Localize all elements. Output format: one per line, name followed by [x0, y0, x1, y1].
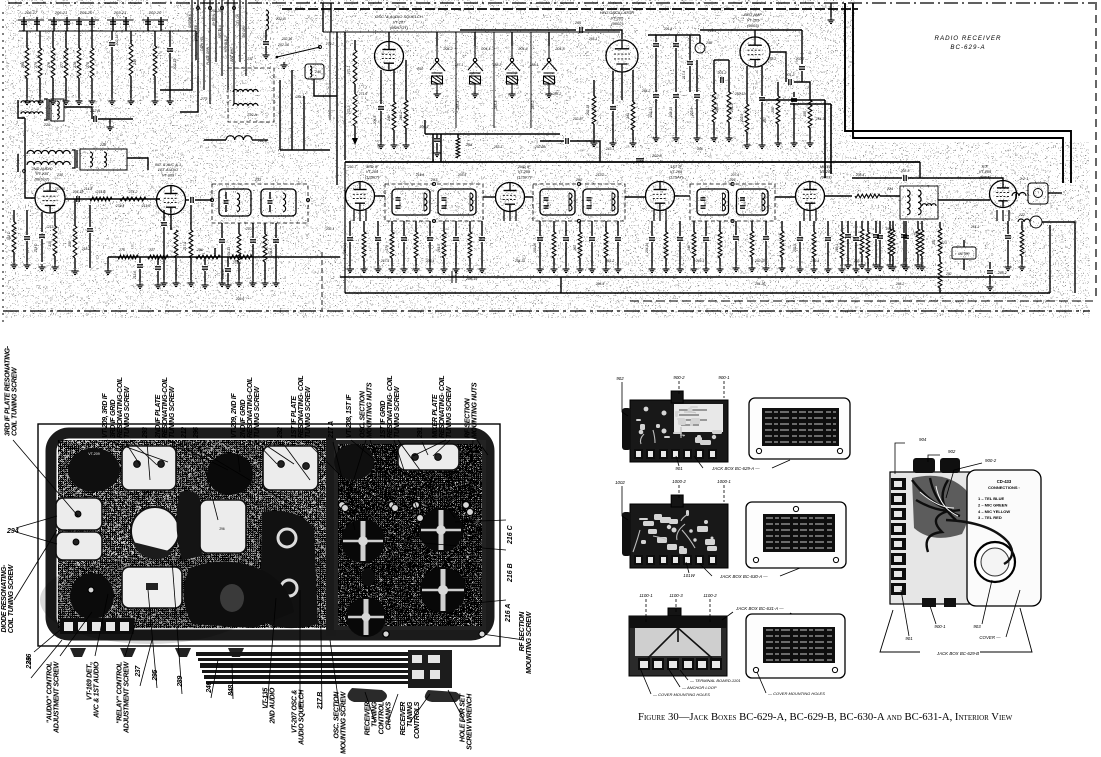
- svg-text:903: 903: [973, 624, 981, 629]
- photo shield 296: [200, 500, 246, 553]
- jack box 4 bracket: [880, 608, 1032, 652]
- resistor 251: [938, 228, 942, 256]
- photo rf section speckle: [338, 444, 482, 626]
- ground 204-6: [273, 280, 280, 287]
- transformer 292 dashed box: [533, 184, 625, 221]
- wire 261-3 gnd: [605, 258, 607, 266]
- wire 252 to bus: [939, 288, 941, 293]
- ground 204-7: [250, 280, 257, 287]
- wire transformer to cap 212-B: [64, 107, 92, 119]
- wire 255 gnd: [809, 128, 811, 140]
- callout line bottom: [232, 664, 233, 699]
- section divider dashed: [321, 252, 323, 310]
- ground 204-40: [903, 264, 910, 271]
- ground 256: [775, 140, 782, 147]
- ground 280: [24, 98, 31, 105]
- svg-text:900-1: 900-1: [718, 375, 730, 380]
- resistor 219: [263, 234, 267, 262]
- cover BC-630-A mounting hole right: [833, 557, 838, 562]
- ground 268-1: [413, 266, 420, 273]
- terminal 228 pin: [23, 170, 26, 173]
- wire 204-14 gnd: [89, 233, 91, 268]
- svg-text:312 D: 312 D: [7, 231, 11, 240]
- capacitor 202-2: [24, 237, 30, 239]
- callout line 1000-1: [723, 485, 725, 502]
- wire 219 top: [264, 223, 266, 234]
- capacitor 205-20b: [89, 22, 95, 24]
- wire 261-5 gnd: [443, 258, 445, 266]
- wire to lower row: [24, 118, 26, 131]
- callout line jackbox2 cover: [780, 568, 800, 576]
- wire 204-16 top: [227, 257, 229, 267]
- wire 259 top: [74, 199, 76, 226]
- wire 262-23 gnd: [665, 258, 667, 266]
- wire 204-9 gnd: [163, 227, 165, 280]
- svg-text:249-3: 249-3: [695, 259, 705, 263]
- ground 202-33: [873, 262, 880, 269]
- svg-text:VT 169: VT 169: [86, 567, 97, 571]
- resistor 246-2: [404, 100, 408, 128]
- wire 228 left: [17, 154, 19, 172]
- svg-text:264-2: 264-2: [641, 89, 651, 93]
- capacitor 202-16b: [263, 42, 269, 44]
- resistor 255: [808, 100, 812, 128]
- wire 259 gnd: [74, 258, 76, 268]
- wire drop to ground: [109, 119, 111, 124]
- svg-text:266-2: 266-2: [895, 282, 905, 286]
- resistor 268-5: [860, 229, 864, 254]
- ground 203-3: [825, 266, 832, 273]
- jack box 4 interior shadow: [912, 476, 969, 538]
- wire heavy relay drop a: [432, 134, 434, 162]
- svg-text:211-6: 211-6: [141, 204, 150, 208]
- tube VT-207: [375, 42, 404, 71]
- wire 204-8b gnd: [705, 242, 707, 266]
- svg-text:JACK BOX BC-629-A —: JACK BOX BC-629-A —: [711, 466, 760, 471]
- resistor 261-8: [916, 229, 920, 254]
- wire 202-14b gnd: [429, 242, 431, 266]
- transformer 236 sub2: [261, 189, 296, 216]
- wire bank bus left up: [424, 120, 426, 134]
- wire 204-2b top: [591, 221, 593, 236]
- wire 268-5 gnd: [861, 254, 863, 262]
- wire 206-8 gnd: [617, 242, 619, 266]
- svg-text:293: 293: [142, 427, 149, 439]
- svg-text:212: 212: [181, 427, 188, 439]
- capacitor 292b2: [587, 206, 592, 208]
- svg-text:JACK BOX BC-630-A —: JACK BOX BC-630-A —: [719, 574, 768, 579]
- wire 216-2 top: [675, 35, 677, 42]
- bundle terminal: [209, 7, 212, 10]
- terminal 292 bottom: [577, 219, 580, 222]
- photo screw mixer b: [435, 454, 442, 461]
- cover BC-629-B wire over grommet: [946, 520, 1012, 564]
- wire 204-8 out: [195, 199, 212, 201]
- coil 236 b: [283, 193, 286, 212]
- wire 206-5 top: [377, 221, 379, 236]
- svg-text:1100-3: 1100-3: [669, 593, 683, 598]
- ground avc left: [105, 268, 112, 275]
- photo mounting screw: [342, 505, 349, 512]
- wire 204-22 gnd: [481, 242, 483, 266]
- svg-text:202-27: 202-27: [572, 117, 583, 121]
- photo round coil ring: [131, 507, 179, 555]
- wire t4 to can292: [524, 196, 533, 198]
- wire node 273: [195, 31, 197, 60]
- resistor 254-1: [727, 92, 731, 122]
- jack box BC-629-A photo left flange: [622, 408, 631, 450]
- svg-text:1000-1: 1000-1: [717, 479, 731, 484]
- callout line: [413, 440, 446, 456]
- wire top tie 203-21: [107, 19, 133, 21]
- svg-text:CRANKS: CRANKS: [386, 701, 393, 730]
- svg-text:BC-629-A: BC-629-A: [950, 44, 985, 51]
- wire bfo plate rail: [700, 29, 802, 31]
- wire bundle HTR BLK-2: [227, 0, 229, 90]
- wire 213-6 gnd: [139, 269, 141, 282]
- coil antenna: [1012, 193, 1026, 196]
- terminal 291 top: [731, 182, 734, 185]
- ground 242: [391, 142, 398, 149]
- ground 269: [1019, 264, 1026, 271]
- ground 253-2: [711, 135, 718, 142]
- schematic right border: [1095, 2, 1097, 300]
- callout line: [236, 440, 240, 472]
- svg-text:217 A: 217 A: [328, 421, 335, 439]
- svg-text:1ST IF GRID: 1ST IF GRID: [380, 401, 387, 438]
- callout line 294a: [16, 516, 57, 528]
- svg-text:RESONATING- COIL: RESONATING- COIL: [387, 376, 394, 438]
- capacitor 202-31: [1005, 236, 1011, 238]
- callout line: [124, 440, 140, 465]
- photo socket upper ring2: [278, 529, 296, 547]
- ground 206-1: [434, 150, 441, 157]
- capacitor 203-4: [677, 238, 683, 240]
- wire drop 275: [91, 31, 93, 48]
- svg-text:RF SECTION: RF SECTION: [519, 611, 526, 652]
- svg-text:RF SECTION: RF SECTION: [465, 397, 472, 438]
- svg-text:270-1: 270-1: [245, 227, 255, 231]
- wire 240 down: [314, 79, 337, 96]
- wire 204-41 gnd: [847, 239, 849, 262]
- transformer 236 dashed box: [212, 184, 308, 223]
- svg-text:RADIO RECEIVER: RADIO RECEIVER: [935, 35, 1002, 42]
- ground 276: [76, 98, 83, 105]
- svg-text:— COVER MOUNTING HOLES: — COVER MOUNTING HOLES: [767, 691, 825, 696]
- wire 268-5 top: [861, 221, 863, 229]
- capacitor 204-5: [378, 107, 384, 109]
- wire 217-4 top: [689, 35, 691, 60]
- tube VT-205 MIXER: [796, 182, 825, 211]
- transformer 229 primary top: [21, 101, 43, 103]
- cover BC-631-A instruction plate: [763, 627, 835, 663]
- callout line 903: [982, 580, 992, 624]
- photo gang capacitor 216A: [420, 567, 466, 613]
- svg-text:202-16: 202-16: [281, 37, 292, 41]
- cover BC-629-A mounting hole left: [756, 448, 761, 453]
- resistor 252: [938, 262, 942, 288]
- wire 204-34 top: [651, 221, 653, 236]
- wire 267-1 top: [469, 221, 471, 232]
- wire coil 291b core: [761, 193, 763, 211]
- svg-text:287-1: 287-1: [454, 63, 464, 67]
- resistor 274-1: [230, 255, 252, 259]
- callout line jackbox3 cover: [790, 613, 800, 618]
- wire 261-8 gnd: [917, 254, 919, 262]
- cover BC-630-A instruction plate lines: [766, 518, 832, 548]
- wire avc bus left end: [107, 257, 109, 268]
- resistor 259: [73, 226, 77, 258]
- ground 202-13: [653, 135, 660, 142]
- ground 202-10: [791, 140, 798, 147]
- tuning shaft right details: [412, 655, 440, 679]
- transformer 228 core line 2: [76, 150, 78, 168]
- capacitor 208: [202, 267, 208, 269]
- callout line jackbox2: [700, 564, 712, 576]
- callout line: [198, 442, 218, 520]
- transformer 293 dashed box: [385, 184, 483, 221]
- photo screw diode a: [75, 511, 81, 517]
- callout line bottom: [31, 640, 62, 678]
- arrow to ground chain: [352, 138, 358, 145]
- wire top drop a: [322, 3, 324, 32]
- ground 202-2: [24, 262, 31, 269]
- wire 206-1 bottom: [436, 143, 438, 150]
- capacitor 291b1: [740, 198, 745, 200]
- wire cap 202-20 b: [160, 17, 162, 31]
- photo rf mounting screw: [479, 631, 485, 637]
- callout line bottom: [140, 640, 152, 686]
- capacitor 212-B: [94, 116, 96, 122]
- wire 262-5 top: [921, 221, 923, 230]
- photo mixer shield: [398, 444, 459, 470]
- capacitor 203-9: [694, 95, 700, 97]
- callout line bottom: [388, 694, 398, 722]
- ground 263-2: [887, 262, 894, 269]
- wire mid vertical b: [291, 70, 293, 150]
- ground 204-37: [733, 265, 740, 272]
- ground 204-22: [479, 266, 486, 273]
- wire 312-D gnd: [13, 252, 15, 262]
- svg-text:SCREW WRENCH: SCREW WRENCH: [467, 693, 474, 750]
- wire 261-3 top: [605, 221, 607, 232]
- wire 216 top: [54, 212, 56, 226]
- wire hfo pin3: [632, 70, 634, 102]
- photo chassis foot 3: [175, 648, 191, 657]
- capacitor 203-6: [563, 238, 569, 240]
- wire cap 202-20 a: [147, 17, 149, 31]
- wire 216 gnd: [54, 256, 56, 264]
- wire 202-19 bottom: [169, 53, 171, 98]
- capacitor 206-21b: [64, 22, 70, 24]
- svg-text:RESONATING- COIL: RESONATING- COIL: [439, 376, 446, 438]
- ground 206-5: [375, 266, 382, 273]
- chassis photo floor speckle: [58, 440, 482, 628]
- svg-text:1ST IF PLATE: 1ST IF PLATE: [291, 396, 298, 438]
- photo tube 2nd IF: [207, 453, 253, 495]
- wire bundle exit left 2: [180, 76, 198, 112]
- svg-text:1000-2: 1000-2: [672, 479, 686, 484]
- wire relay 204-3 feed: [548, 32, 550, 46]
- svg-text:Figure 30—Jack Boxes BC-629-A,: Figure 30—Jack Boxes BC-629-A, BC-629-B,…: [638, 711, 1013, 723]
- capacitor 202-11: [799, 67, 805, 69]
- wire 202-26 gnd: [539, 242, 541, 266]
- wire avc bus right: [340, 276, 1010, 278]
- svg-text:2ND AUDIO: 2ND AUDIO: [270, 687, 277, 724]
- svg-text:213-5: 213-5: [47, 225, 57, 229]
- wire 203-2 top: [989, 262, 991, 269]
- wire 206-8 top: [617, 221, 619, 236]
- cover BC-629-B grommet inner: [981, 548, 1009, 576]
- wire VT-207 pin2: [393, 70, 395, 102]
- wire 203-4 gnd: [679, 242, 681, 266]
- resistor 276: [77, 48, 81, 78]
- wire 202-5 to rf tube: [908, 178, 1003, 181]
- wire 206-5 gnd: [377, 242, 379, 266]
- photo rf section inner edge: [336, 442, 484, 628]
- coil 292a: [569, 193, 572, 211]
- wire 204-40 top: [905, 221, 907, 234]
- callout line: [305, 440, 370, 505]
- cover BC-629-A mounting hole right: [837, 448, 842, 453]
- callout line bottom: [211, 660, 218, 698]
- svg-text:901: 901: [905, 636, 913, 641]
- wire 203-9 gnd: [696, 99, 698, 135]
- cover BC-629-A instruction plate lines: [765, 412, 836, 442]
- bundle terminal: [233, 7, 236, 10]
- cover BC-630-A instruction plate: [763, 514, 835, 552]
- wire 202-29 gnd: [765, 241, 767, 265]
- callout line bottom: [267, 598, 276, 708]
- svg-text:1100-1: 1100-1: [639, 593, 653, 598]
- bundle terminal: [221, 7, 224, 10]
- feedthrough capacitor 206-19: [448, 271, 460, 283]
- wire 202-29 top: [765, 221, 767, 235]
- resistor 277: [64, 48, 68, 78]
- callout line bottom: [320, 560, 322, 708]
- capacitor 292b1: [587, 198, 592, 200]
- wire 204-16 gnd: [227, 273, 229, 282]
- wire 203-6 gnd: [565, 242, 567, 266]
- wire 202-14b top: [429, 221, 431, 236]
- ground 204-5: [378, 142, 385, 149]
- wire 202-4 gnd: [799, 242, 801, 266]
- wire 204-6 top: [275, 223, 277, 238]
- resistor 256: [776, 96, 780, 124]
- callout line bottom: [125, 610, 140, 656]
- svg-text:294: 294: [6, 528, 19, 535]
- svg-text:900-2: 900-2: [985, 458, 997, 463]
- transformer 229 secondary coil: [57, 101, 59, 119]
- ground 255-1: [865, 266, 872, 273]
- terminal 236 right: [306, 198, 309, 201]
- wire 267-4 top: [363, 221, 365, 232]
- svg-text:202-12: 202-12: [734, 92, 745, 96]
- relay 204-4: [505, 46, 520, 91]
- wire 248 top: [699, 35, 701, 43]
- photo shield 295 marking: [146, 583, 158, 590]
- wire 236 b2: [269, 205, 271, 212]
- callout line: [422, 442, 428, 455]
- wire 251 top: [939, 222, 941, 228]
- wire cap to ground: [265, 46, 267, 52]
- photo screw 293b: [158, 461, 165, 468]
- schematic top inner border: [282, 8, 858, 10]
- wire VT-207 pin1: [380, 70, 382, 104]
- capacitor 293b1: [442, 198, 447, 200]
- ground of relay 204-1: [472, 91, 479, 98]
- wire bundle exit left: [160, 62, 192, 90]
- wire feeder A: [336, 32, 338, 185]
- resistor 217-2: [189, 230, 193, 258]
- wire 213-D gnd: [41, 239, 43, 262]
- resistor 261-5: [442, 232, 446, 258]
- resistor 263-2: [888, 229, 892, 254]
- cover BC-629-A instruction plate: [762, 408, 839, 446]
- capacitor 206-21a: [51, 22, 57, 24]
- svg-text:JACK BOX BC-631-A —: JACK BOX BC-631-A —: [735, 606, 784, 611]
- svg-text:JACK BOX BC-629-B: JACK BOX BC-629-B: [936, 651, 979, 656]
- capacitor 202-14b: [427, 238, 433, 240]
- wire 202-24 gnd: [349, 242, 351, 266]
- wire cap 206-21 b: [66, 17, 68, 31]
- wire 217-4 down: [689, 66, 691, 92]
- callout line 904: [895, 443, 905, 474]
- capacitor 204-14: [87, 229, 93, 231]
- svg-text:902: 902: [616, 376, 624, 381]
- wire feeder B: [344, 32, 346, 160]
- wire bfo right rail: [801, 30, 803, 64]
- svg-text:288-2: 288-2: [492, 63, 502, 67]
- capacitor 201-3: [789, 79, 791, 85]
- ground 249: [128, 98, 135, 105]
- wire heavy relay drop b: [440, 134, 442, 162]
- transformer 229 primary bottom: [21, 112, 43, 114]
- wire 204-37 top: [735, 221, 737, 235]
- resistor 218: [174, 230, 178, 258]
- callout line: [130, 440, 157, 465]
- jack box 4 terminal column: [891, 478, 906, 595]
- callout line bottom: [330, 640, 340, 712]
- wire VT-207 pin3: [405, 60, 407, 100]
- ground 202-14: [673, 135, 680, 142]
- wire chain top: [354, 40, 356, 50]
- svg-text:TUNING SCREW: TUNING SCREW: [394, 385, 401, 438]
- photo dark mass left of 296: [176, 491, 202, 560]
- wire bfo out 2: [794, 82, 810, 100]
- resistor 262-4: [780, 231, 784, 257]
- callout line 900-1b: [930, 606, 936, 624]
- schematic bottom border: [3, 310, 1090, 312]
- ground 213-6: [137, 282, 144, 289]
- wire mid horizontal tie: [280, 149, 330, 151]
- switch pivot: [276, 56, 279, 59]
- transformer 228 winding top: [27, 150, 70, 154]
- callout line 294b: [16, 532, 57, 544]
- bundle terminal: [197, 7, 200, 10]
- coil 292b: [612, 193, 615, 211]
- jack box 3 top strip: [629, 616, 727, 628]
- svg-text:COIL TUNING SCREW: COIL TUNING SCREW: [12, 366, 19, 436]
- relay 204-1: [468, 46, 483, 91]
- callout line bottom: [365, 692, 375, 722]
- callout line jackbox3: [722, 612, 733, 620]
- ground 203-9: [694, 135, 701, 142]
- photo screw 293a: [134, 461, 141, 468]
- cover BC-631-A mounting hole left: [753, 667, 758, 672]
- svg-text:2 – MIC GREEN: 2 – MIC GREEN: [978, 502, 1007, 507]
- wire mid vertical c: [303, 96, 305, 150]
